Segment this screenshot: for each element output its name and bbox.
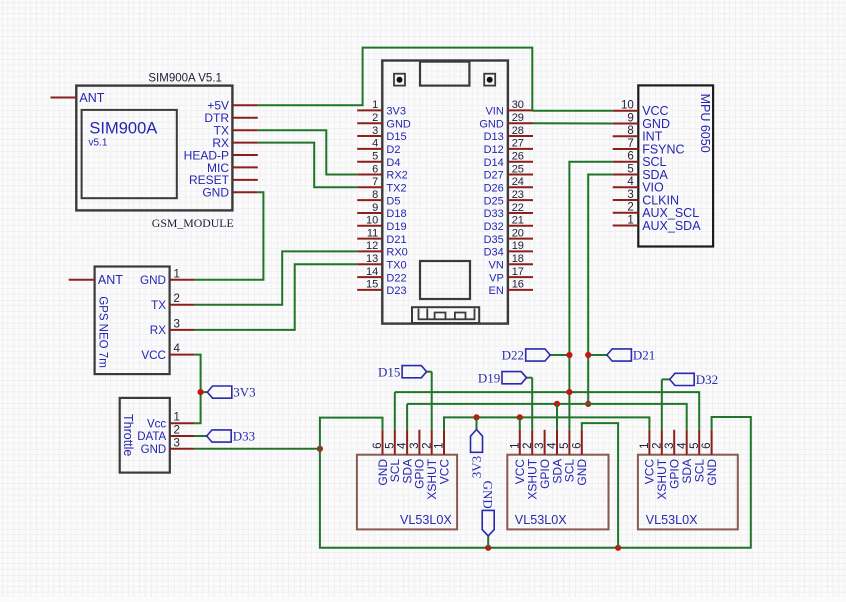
svg-text:Throttle: Throttle — [121, 414, 135, 456]
svg-text:D19: D19 — [386, 221, 406, 233]
svg-text:4: 4 — [627, 176, 634, 188]
svg-text:5: 5 — [689, 442, 701, 448]
svg-text:GND: GND — [140, 274, 166, 287]
svg-text:D2: D2 — [386, 144, 400, 156]
svg-text:TX: TX — [151, 299, 166, 312]
svg-text:12: 12 — [366, 240, 378, 252]
svg-text:D33: D33 — [233, 429, 255, 444]
svg-text:10: 10 — [366, 215, 378, 227]
svg-text:2: 2 — [421, 442, 433, 448]
svg-text:8: 8 — [627, 125, 633, 137]
svg-text:3: 3 — [174, 318, 180, 330]
svg-text:1: 1 — [372, 99, 378, 111]
svg-text:RX0: RX0 — [386, 247, 407, 259]
svg-text:5: 5 — [559, 442, 571, 448]
svg-text:D34: D34 — [484, 247, 504, 259]
svg-text:1: 1 — [627, 214, 633, 226]
svg-text:D22: D22 — [502, 348, 524, 363]
svg-text:D4: D4 — [386, 157, 400, 169]
svg-text:D23: D23 — [386, 285, 406, 297]
svg-text:18: 18 — [512, 253, 524, 265]
svg-text:13: 13 — [366, 253, 378, 265]
svg-text:TX0: TX0 — [386, 259, 406, 271]
svg-text:1: 1 — [174, 412, 180, 424]
svg-text:D13: D13 — [484, 131, 504, 143]
svg-text:GND: GND — [386, 118, 411, 130]
svg-text:22: 22 — [512, 202, 524, 214]
svg-text:5: 5 — [627, 163, 633, 175]
svg-text:6: 6 — [627, 151, 633, 163]
svg-text:RX2: RX2 — [386, 170, 407, 182]
svg-text:D32: D32 — [484, 221, 504, 233]
svg-text:1: 1 — [509, 442, 521, 448]
svg-text:v5.1: v5.1 — [89, 138, 108, 149]
svg-text:23: 23 — [512, 189, 524, 201]
svg-text:29: 29 — [512, 112, 524, 124]
svg-text:11: 11 — [367, 227, 378, 239]
svg-text:1: 1 — [639, 442, 651, 448]
svg-text:26: 26 — [512, 151, 524, 163]
svg-text:D32: D32 — [696, 372, 718, 387]
svg-text:3: 3 — [174, 437, 180, 449]
svg-text:6: 6 — [701, 442, 713, 448]
svg-text:VN: VN — [489, 259, 504, 271]
svg-text:ANT: ANT — [79, 91, 104, 105]
svg-text:D25: D25 — [484, 195, 504, 207]
svg-text:3: 3 — [372, 125, 378, 137]
svg-text:2: 2 — [522, 442, 534, 448]
svg-text:D15: D15 — [378, 364, 400, 379]
svg-text:14: 14 — [366, 266, 378, 278]
svg-text:GND: GND — [141, 444, 167, 456]
svg-text:D35: D35 — [484, 234, 504, 246]
svg-text:27: 27 — [512, 138, 524, 150]
svg-text:1: 1 — [434, 442, 446, 448]
svg-text:GND: GND — [481, 481, 496, 509]
svg-text:D18: D18 — [386, 208, 406, 220]
svg-text:D15: D15 — [386, 131, 406, 143]
svg-text:DATA: DATA — [137, 431, 166, 443]
svg-text:21: 21 — [512, 215, 524, 227]
svg-text:5: 5 — [372, 151, 378, 163]
svg-text:D12: D12 — [484, 144, 504, 156]
svg-text:4: 4 — [547, 442, 559, 449]
svg-text:3: 3 — [664, 442, 676, 448]
svg-text:6: 6 — [372, 442, 384, 448]
svg-text:20: 20 — [512, 227, 524, 239]
svg-text:AUX_SDA: AUX_SDA — [642, 219, 701, 233]
svg-text:3: 3 — [627, 189, 633, 201]
svg-text:2: 2 — [372, 112, 378, 124]
svg-text:3V3: 3V3 — [469, 456, 484, 478]
svg-text:4: 4 — [174, 343, 181, 355]
svg-text:D14: D14 — [484, 157, 504, 169]
svg-text:MPU 6050: MPU 6050 — [698, 94, 712, 153]
svg-text:GSM_MODULE: GSM_MODULE — [152, 216, 234, 230]
svg-text:GND: GND — [575, 459, 589, 486]
svg-text:4: 4 — [676, 442, 688, 449]
svg-text:VL53L0X: VL53L0X — [646, 513, 698, 527]
svg-text:8: 8 — [372, 189, 378, 201]
svg-text:SIM900A V5.1: SIM900A V5.1 — [148, 73, 222, 85]
svg-text:3V3: 3V3 — [233, 385, 255, 400]
svg-text:6: 6 — [571, 442, 583, 448]
svg-text:4: 4 — [397, 442, 409, 449]
svg-text:D5: D5 — [386, 195, 400, 207]
svg-text:9: 9 — [372, 202, 378, 214]
svg-text:24: 24 — [512, 176, 524, 188]
svg-text:6: 6 — [372, 163, 378, 175]
svg-text:3: 3 — [534, 442, 546, 448]
svg-text:VIN: VIN — [485, 106, 503, 118]
svg-text:15: 15 — [366, 279, 378, 291]
svg-text:2: 2 — [174, 425, 180, 437]
svg-text:4: 4 — [372, 138, 378, 150]
svg-text:GND: GND — [705, 459, 719, 486]
svg-text:25: 25 — [512, 163, 524, 175]
svg-text:D27: D27 — [484, 170, 504, 182]
svg-text:3: 3 — [409, 442, 421, 448]
svg-text:30: 30 — [512, 99, 524, 111]
svg-text:TX2: TX2 — [386, 183, 406, 195]
svg-text:GND: GND — [202, 186, 229, 200]
svg-text:2: 2 — [651, 442, 663, 448]
svg-text:D21: D21 — [633, 348, 655, 363]
svg-text:D21: D21 — [386, 234, 406, 246]
svg-text:3V3: 3V3 — [386, 106, 406, 118]
svg-text:EN: EN — [489, 285, 504, 297]
svg-text:D26: D26 — [484, 183, 504, 195]
svg-text:VL53L0X: VL53L0X — [515, 513, 567, 527]
svg-text:RX: RX — [150, 324, 166, 337]
svg-text:28: 28 — [512, 125, 524, 137]
svg-text:17: 17 — [512, 266, 524, 278]
svg-text:7: 7 — [627, 138, 633, 150]
svg-text:VCC: VCC — [437, 459, 451, 485]
svg-text:19: 19 — [512, 240, 524, 252]
svg-text:9: 9 — [627, 112, 633, 124]
svg-text:GND: GND — [479, 118, 504, 130]
svg-text:16: 16 — [512, 279, 524, 291]
svg-text:10: 10 — [621, 100, 634, 112]
svg-text:VCC: VCC — [141, 349, 166, 362]
svg-text:D22: D22 — [386, 272, 406, 284]
svg-text:ANT: ANT — [98, 273, 123, 287]
svg-text:SIM900A: SIM900A — [89, 120, 157, 138]
svg-text:Vcc: Vcc — [147, 418, 166, 430]
svg-text:D19: D19 — [478, 370, 500, 385]
svg-text:7: 7 — [372, 176, 378, 188]
svg-text:1: 1 — [174, 268, 180, 280]
svg-text:2: 2 — [627, 202, 633, 214]
svg-text:D33: D33 — [484, 208, 504, 220]
svg-text:2: 2 — [174, 293, 180, 305]
svg-text:GPS NEO 7m: GPS NEO 7m — [97, 296, 109, 368]
svg-text:VL53L0X: VL53L0X — [400, 513, 452, 527]
svg-text:5: 5 — [384, 442, 396, 448]
svg-text:VP: VP — [489, 272, 504, 284]
